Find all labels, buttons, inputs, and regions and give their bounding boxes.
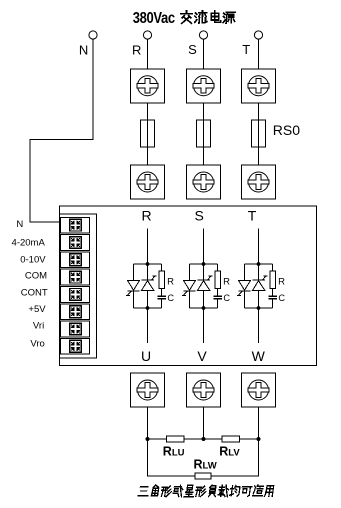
svg-text:C: C	[167, 293, 174, 303]
svg-text:CONT: CONT	[21, 288, 48, 299]
svg-text:R: R	[132, 43, 141, 58]
svg-text:C: C	[223, 293, 230, 303]
svg-text:RLW: RLW	[194, 458, 217, 472]
svg-text:COM: COM	[25, 271, 47, 282]
svg-text:Vri: Vri	[33, 321, 44, 332]
svg-text:0-10V: 0-10V	[20, 254, 46, 265]
svg-text:U: U	[141, 348, 151, 364]
svg-text:R: R	[167, 276, 174, 287]
svg-text:R: R	[278, 276, 285, 287]
svg-text:T: T	[242, 42, 250, 57]
svg-text:RLU: RLU	[163, 445, 185, 459]
svg-text:380Vac: 380Vac	[133, 10, 175, 27]
svg-text:N: N	[16, 219, 23, 230]
svg-text:S: S	[195, 208, 204, 224]
svg-text:S: S	[188, 42, 197, 57]
svg-text:R: R	[223, 276, 230, 287]
svg-text:N: N	[79, 43, 88, 58]
svg-text:C: C	[278, 293, 285, 303]
svg-text:V: V	[197, 348, 207, 364]
svg-text:T: T	[248, 208, 257, 224]
svg-text:4-20mA: 4-20mA	[12, 238, 46, 249]
svg-text:RS0: RS0	[273, 122, 300, 138]
svg-text:+5V: +5V	[28, 304, 46, 315]
svg-text:R: R	[141, 208, 151, 224]
svg-text:Vro: Vro	[30, 338, 44, 349]
svg-text:RLV: RLV	[219, 445, 240, 459]
svg-text:W: W	[252, 348, 266, 364]
